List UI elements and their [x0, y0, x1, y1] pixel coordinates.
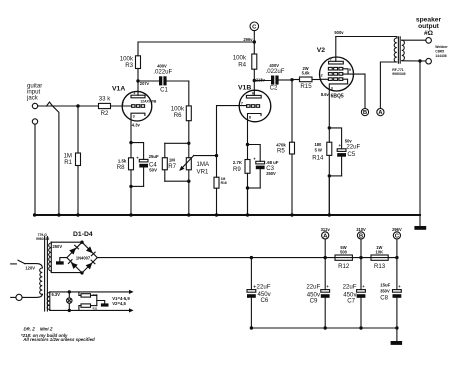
svg-text:C2: C2	[270, 85, 278, 92]
svg-text:V1B: V1B	[238, 85, 251, 92]
node bus R1	[76, 213, 79, 216]
label 312v	[321, 227, 331, 232]
label 218v	[256, 77, 266, 82]
svg-text:V2=4,5: V2=4,5	[112, 301, 126, 306]
svg-text:15uF: 15uF	[380, 283, 390, 288]
node B+ A	[324, 256, 327, 259]
wire C4 top bracket	[131, 143, 144, 160]
node B bottom circled	[357, 232, 364, 258]
label V2	[317, 47, 326, 54]
svg-text:1N4007: 1N4007	[76, 255, 91, 260]
wire filter bus to ground	[396, 328, 398, 341]
node bus R5	[290, 213, 293, 216]
wire ground bus	[35, 214, 420, 216]
wire switch to ground bus	[52, 106, 59, 215]
svg-text:500v: 500v	[334, 30, 344, 35]
svg-text:9960349: 9960349	[392, 72, 405, 76]
svg-text:3: 3	[331, 87, 333, 91]
node OT secondary ground	[418, 59, 421, 62]
wire B+ rail	[97, 257, 397, 259]
node A circled	[377, 109, 384, 117]
ground OT secondary	[414, 226, 426, 230]
wire HV bottom to bridge	[51, 272, 82, 274]
svg-text:VR1: VR1	[197, 169, 209, 176]
jack tip terminal	[32, 103, 37, 108]
svg-text:C8: C8	[380, 294, 388, 301]
node V2 cathode top	[328, 126, 331, 129]
wire C5 bottom bracket	[329, 175, 341, 177]
wire mains top	[11, 263, 17, 265]
node V1B cathode bottom	[246, 186, 249, 189]
svg-text:C5: C5	[347, 151, 355, 158]
svg-text:R11: R11	[93, 306, 98, 310]
node filter bus C8	[395, 326, 398, 329]
svg-text:R14: R14	[312, 154, 324, 161]
op-amp V1B triode	[239, 81, 271, 145]
resistor R11	[79, 304, 98, 311]
label 296V	[392, 227, 402, 232]
wire C4 bottom bracket	[131, 185, 144, 187]
svg-text:R9: R9	[233, 166, 241, 173]
svg-text:400V: 400V	[269, 63, 279, 68]
pin 9 V2	[349, 68, 351, 72]
svg-text:250V: 250V	[266, 171, 276, 176]
resistor R1	[64, 106, 81, 215]
label D1-D4	[73, 231, 93, 238]
wire R7-VR1 bottom bracket	[165, 180, 189, 182]
svg-text:350V: 350V	[380, 288, 390, 293]
svg-text:#Ω: #Ω	[424, 30, 434, 37]
wire humdinger join	[91, 295, 105, 305]
transistor V2 pentode	[320, 37, 366, 128]
wire switch to PT primary	[25, 264, 43, 268]
svg-text:12AX7WB: 12AX7WB	[140, 100, 157, 104]
svg-text:V2: V2	[317, 47, 326, 54]
svg-text:7: 7	[241, 101, 243, 105]
svg-text:R15: R15	[300, 83, 312, 90]
svg-text:R12: R12	[338, 263, 350, 270]
node bridge bottom	[80, 271, 83, 274]
op-amp V1A triode	[122, 81, 152, 143]
node C bottom circled	[393, 232, 400, 258]
wire OT secondary bottom	[402, 60, 426, 62]
wire C3 bottom bracket	[248, 187, 261, 189]
wire jack sleeve to ground bus	[34, 124, 36, 215]
svg-text:25uF: 25uF	[149, 154, 159, 159]
wire R14 to ground bus	[328, 176, 330, 215]
diode D1	[69, 245, 78, 254]
label 120V	[25, 265, 35, 270]
svg-text:8: 8	[249, 116, 251, 120]
svg-text:218v: 218v	[256, 77, 266, 82]
svg-text:6: 6	[252, 91, 254, 95]
node wiper-R16	[215, 154, 218, 157]
node V2 cathode bottom	[328, 174, 331, 177]
wire bridge to ground	[60, 258, 67, 262]
svg-text:2.7K: 2.7K	[233, 160, 243, 165]
label 207v	[140, 81, 150, 86]
svg-text:9: 9	[349, 68, 351, 72]
wire R8 to ground bus	[130, 186, 132, 215]
resistor R12	[335, 245, 352, 270]
svg-text:7: 7	[330, 57, 332, 61]
capacitor C3	[253, 157, 279, 188]
capacitor C5	[337, 139, 360, 176]
node filter bus C6	[250, 326, 253, 329]
svg-text:2: 2	[321, 74, 323, 78]
label heater voltages	[112, 296, 130, 306]
svg-text:All resistors 1/2w unless spec: All resistors 1/2w unless specified	[22, 337, 95, 342]
note resistors	[22, 337, 95, 342]
label 1N4007	[76, 255, 91, 260]
wire V2 screen to node B	[364, 74, 366, 108]
wire R9 to ground bus	[247, 188, 249, 215]
node A bottom circled	[322, 232, 329, 258]
wire heater bottom	[50, 308, 134, 312]
svg-text:1: 1	[133, 91, 135, 95]
svg-text:C9: C9	[310, 297, 318, 304]
svg-text:R2: R2	[101, 110, 109, 117]
wire R15 to V2 grid	[320, 78, 328, 80]
node bus R16	[215, 213, 218, 216]
svg-text:296v: 296v	[243, 37, 253, 42]
fuse mains	[16, 294, 22, 300]
pin 2 V2	[321, 74, 323, 78]
node bus switch	[57, 213, 60, 216]
wire wiper to V1B grid	[217, 106, 247, 156]
node jack-R1	[76, 104, 79, 107]
svg-text:C8R5: C8R5	[435, 50, 444, 54]
svg-text:A: A	[378, 110, 383, 116]
svg-text:8.6v: 8.6v	[321, 92, 330, 97]
node B+ B	[359, 256, 362, 259]
svg-text:22uF: 22uF	[343, 284, 357, 291]
resistor R6	[171, 81, 192, 143]
capacitor C7	[343, 258, 366, 328]
diode D4	[86, 260, 95, 269]
resistor R2	[99, 95, 112, 117]
node bus VR1	[187, 213, 190, 216]
note title	[24, 327, 53, 332]
speaker jack top terminal	[426, 38, 432, 44]
wire C5 top bracket	[329, 128, 341, 149]
svg-text:2: 2	[122, 102, 124, 106]
svg-text:3: 3	[133, 114, 135, 118]
svg-text:250V: 250V	[53, 244, 63, 249]
svg-text:R7: R7	[168, 163, 176, 170]
node filter bus C7	[359, 326, 362, 329]
svg-text:22uF: 22uF	[346, 144, 360, 151]
svg-text:R8: R8	[117, 164, 125, 171]
resistor R13	[371, 245, 388, 270]
svg-text:C1: C1	[160, 86, 168, 93]
wire R7-VR1 top bracket	[165, 142, 189, 144]
svg-text:D1-D4: D1-D4	[73, 231, 93, 238]
resistor R4	[233, 42, 257, 81]
label 500v	[334, 30, 344, 35]
speaker output label	[416, 16, 442, 37]
node pilot bottom	[68, 309, 71, 312]
pin 8 V1B	[249, 116, 251, 120]
label 12AX7WB	[140, 100, 157, 104]
svg-text:DR. Z Mini Z: DR. Z Mini Z	[24, 327, 53, 332]
svg-text:R3: R3	[125, 62, 133, 69]
node pilot top	[68, 290, 71, 293]
svg-text:V1A: V1A	[112, 86, 125, 93]
wire R2 to V1A grid	[111, 105, 132, 107]
resistor R15	[292, 66, 320, 90]
label V1A	[112, 86, 125, 93]
svg-text:5 W: 5 W	[315, 147, 322, 152]
node bus sleeve	[33, 213, 36, 216]
lamp pilot	[67, 292, 72, 311]
svg-text:100k: 100k	[233, 55, 247, 62]
svg-text:.022uF: .022uF	[266, 68, 285, 75]
pin 2 V1A	[122, 102, 124, 106]
resistor R14	[312, 128, 332, 215]
svg-text:1M: 1M	[169, 158, 175, 163]
node B circled	[361, 109, 368, 117]
label 779-G 9960438	[36, 233, 49, 241]
wire VR1 to ground bus	[188, 181, 190, 215]
svg-text:+22uF: +22uF	[253, 284, 271, 291]
svg-text:5.6k: 5.6k	[302, 71, 311, 76]
node B+ C6	[250, 256, 253, 259]
pin 3 V2	[331, 87, 333, 91]
svg-text:500: 500	[340, 249, 348, 254]
label 6BQ5	[331, 93, 344, 99]
label Webber C8R5 144436	[435, 45, 448, 58]
node VR1 bottom	[187, 180, 190, 183]
svg-text:1MA: 1MA	[197, 161, 210, 168]
svg-text:120V: 120V	[25, 265, 35, 270]
wire OT secondary to ground	[419, 61, 421, 226]
svg-text:R13: R13	[374, 263, 386, 270]
node B+ C	[395, 256, 398, 259]
label 6.3V	[52, 292, 61, 297]
svg-text:33 k: 33 k	[99, 95, 111, 102]
node C junction	[253, 40, 256, 43]
wire V2 plate to OT	[336, 37, 397, 39]
transformer PT HV secondary	[49, 242, 52, 272]
svg-text:Webber: Webber	[435, 45, 448, 49]
wire fuse to PT primary	[22, 294, 42, 297]
transformer OT output	[394, 37, 404, 63]
wire OT secondary top	[402, 39, 426, 41]
label RF-771	[392, 68, 405, 76]
capacitor C6	[247, 258, 272, 328]
node bus R9	[246, 213, 249, 216]
resistor R16	[214, 156, 227, 215]
svg-text:1.5k: 1.5k	[118, 159, 127, 164]
label V1B	[238, 85, 251, 92]
svg-text:R16: R16	[221, 181, 227, 185]
ground bridge	[56, 261, 64, 264]
wire heater top	[50, 290, 134, 294]
transformer PT primary	[40, 268, 43, 295]
label 250V	[53, 244, 63, 249]
transformer PT core	[45, 237, 48, 312]
wire jack tip to R2	[38, 105, 99, 107]
node filter bus C9	[324, 326, 327, 329]
label 8.6v	[321, 92, 330, 97]
label 296v	[243, 37, 253, 42]
diode bridge frame	[67, 242, 97, 273]
svg-text:6BQ5: 6BQ5	[331, 93, 344, 99]
capacitor C9	[306, 258, 329, 328]
node C circled	[250, 22, 259, 42]
ground humdinger	[101, 303, 109, 306]
svg-text:10K: 10K	[376, 249, 384, 254]
node C2-R5	[290, 78, 293, 81]
wire filter bus	[251, 327, 397, 329]
jack shorting switch	[47, 102, 53, 106]
svg-text:207v: 207v	[140, 81, 150, 86]
diode D2	[86, 246, 95, 255]
speaker jack bottom terminal	[426, 58, 432, 64]
resistor R9	[233, 145, 250, 216]
resistor R5	[276, 80, 294, 215]
resistor R3	[120, 42, 141, 81]
note 218	[21, 333, 68, 338]
pin 7 V2	[330, 57, 332, 61]
svg-text:R5: R5	[277, 148, 285, 155]
potentiometer VR1	[179, 143, 210, 181]
capacitor C4	[136, 154, 159, 187]
transformer PT heater winding	[47, 292, 50, 311]
wire OT primary to node A	[380, 62, 396, 109]
switch mains	[18, 260, 25, 263]
svg-text:C7: C7	[347, 297, 355, 304]
capacitor C8	[380, 258, 401, 328]
svg-text:.022uF: .022uF	[153, 69, 172, 76]
pin 1 V1A	[133, 91, 135, 95]
svg-text:4.3v: 4.3v	[132, 123, 141, 128]
wire C3 top bracket	[248, 145, 261, 162]
node bus R14	[328, 213, 331, 216]
svg-text:22uF: 22uF	[306, 284, 320, 291]
node R6-VR1	[187, 142, 190, 145]
svg-text:R4: R4	[238, 62, 246, 69]
node V1A plate	[136, 79, 139, 82]
node bus R8	[129, 213, 132, 216]
pin 7 V1B	[241, 101, 243, 105]
pin 6 V1B	[252, 91, 254, 95]
svg-text:B: B	[363, 110, 367, 116]
wire mains bottom	[11, 296, 16, 298]
resistor R7	[162, 143, 176, 181]
node V1B plate	[253, 79, 256, 82]
svg-text:C: C	[252, 25, 257, 31]
diode D3	[68, 260, 77, 269]
svg-text:50V: 50V	[149, 167, 157, 172]
node V1A cathode top	[129, 141, 132, 144]
capacitor C2	[254, 63, 292, 92]
resistor R8	[117, 143, 134, 187]
ground filter bus	[391, 341, 403, 345]
label 310V	[356, 227, 366, 232]
capacitor C1	[138, 63, 189, 93]
svg-text:jack: jack	[26, 95, 39, 102]
wire VR1 wiper	[194, 155, 217, 157]
svg-text:R1: R1	[64, 159, 72, 166]
wire R3 to node C	[138, 41, 254, 43]
svg-text:C6: C6	[261, 297, 269, 304]
svg-text:6.3V: 6.3V	[52, 292, 61, 297]
jack sleeve terminal	[32, 119, 37, 124]
node V1A cathode bottom	[129, 185, 132, 188]
svg-text:144436: 144436	[435, 54, 446, 58]
resistor R10	[79, 292, 98, 297]
node V1B cathode top	[246, 143, 249, 146]
svg-text:R6: R6	[174, 112, 182, 119]
guitar input jack label	[26, 83, 42, 102]
label 4.3v	[132, 123, 141, 128]
wire HV top to bridge	[51, 241, 82, 243]
pin 3 V1A	[133, 114, 135, 118]
node bridge top	[80, 241, 83, 244]
